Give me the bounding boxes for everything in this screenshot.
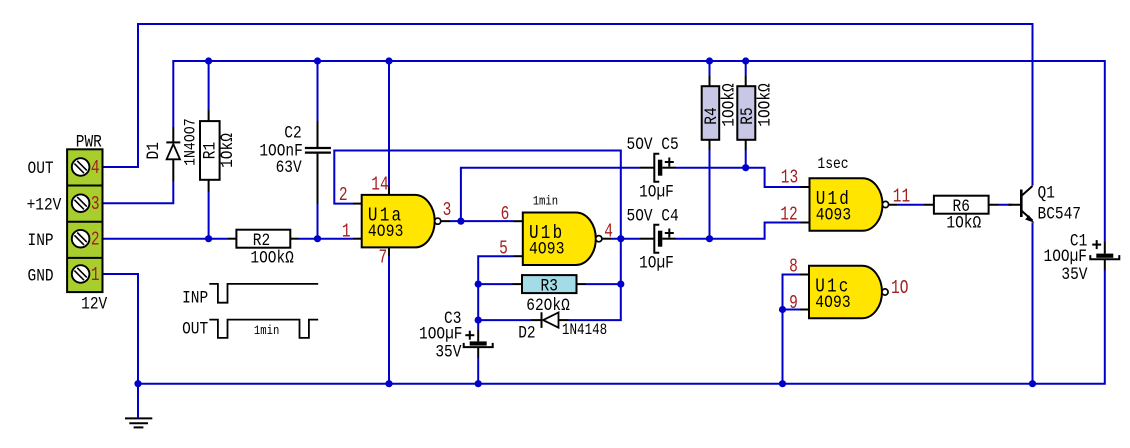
svg-text:2: 2: [91, 230, 100, 251]
svg-text:62OkΩ: 62OkΩ: [526, 296, 570, 316]
op-amp U1b nand gate: [514, 220, 523, 222]
junction: [205, 57, 212, 64]
svg-text:INP: INP: [182, 288, 208, 308]
svg-text:1OµF: 1OµF: [639, 253, 674, 273]
svg-text:1OkΩ: 1OkΩ: [946, 213, 981, 233]
junction: [617, 281, 624, 288]
svg-text:12V: 12V: [81, 294, 107, 314]
svg-text:6: 6: [501, 204, 510, 225]
transistor Q1: [1009, 204, 1022, 206]
junction: [385, 380, 392, 387]
junction: [314, 57, 321, 64]
terminal screw pin 2: [72, 230, 90, 248]
wire R4 bottom lead down across C5 row to C4 row: [709, 150, 711, 239]
svg-text:63V: 63V: [276, 158, 302, 178]
svg-text:7: 7: [378, 248, 387, 269]
junction: [475, 317, 482, 324]
capacitor C5: [640, 167, 654, 169]
svg-text:4: 4: [604, 222, 613, 243]
junction: [385, 57, 392, 64]
svg-text:1OOµF: 1OOµF: [419, 324, 462, 344]
capacitor C4: [640, 238, 654, 240]
capacitor C2: [317, 121, 319, 147]
svg-text:4O93: 4O93: [816, 204, 852, 225]
wire R3 left lead: [478, 283, 512, 285]
svg-text:1: 1: [91, 265, 100, 286]
wire U1b output pin4 to C4 left: [611, 238, 640, 240]
diode D2: [531, 319, 542, 321]
wire C4 right lead, jog up to U1d pin12: [676, 223, 801, 239]
wire feedback net pin2 - U1b output: horiz y150, down to pin4 junction: [334, 151, 621, 239]
svg-text:35V: 35V: [1061, 265, 1087, 285]
ground symbol: [137, 384, 139, 418]
junction: [706, 57, 713, 64]
svg-text:1OµF: 1OµF: [639, 182, 674, 202]
svg-text:D2: D2: [518, 323, 535, 343]
svg-text:4O93: 4O93: [368, 221, 404, 242]
wire C2 top lead from rail2: [317, 61, 319, 121]
svg-text:+12V: +12V: [27, 195, 62, 215]
svg-text:14: 14: [371, 175, 388, 196]
resistor R6: [924, 204, 934, 206]
svg-text:1O: 1O: [891, 278, 908, 299]
wire OUT net: pin4 stub, up left side, top rail, down to Q1 collector: [103, 24, 1033, 186]
svg-text:4: 4: [91, 158, 100, 179]
wire C2 bottom lead to node R2-pin1: [317, 204, 319, 239]
wire pin4 junction down to D2 row: [569, 239, 621, 320]
svg-text:9: 9: [789, 293, 798, 314]
wire +12V: pin3 stub to D1 bottom corner: [103, 181, 174, 203]
wire R5 top lead from rail2: [745, 61, 747, 76]
svg-text:1N4148: 1N4148: [562, 322, 607, 339]
junction: [617, 235, 624, 242]
svg-text:5: 5: [499, 239, 508, 260]
junction: [742, 57, 749, 64]
svg-text:BC547: BC547: [1038, 204, 1081, 224]
wire C3 bottom lead to ground rail: [477, 358, 479, 384]
terminal screw pin 1: [72, 265, 90, 283]
svg-text:OUT: OUT: [28, 159, 54, 179]
svg-text:1sec: 1sec: [817, 156, 848, 173]
svg-text:C2: C2: [284, 123, 301, 143]
svg-text:Q1: Q1: [1038, 183, 1055, 203]
svg-text:1min: 1min: [533, 194, 558, 209]
svg-text:13: 13: [781, 168, 798, 189]
wire U1c pin9 stub: [783, 309, 801, 311]
svg-text:1N4OO7: 1N4OO7: [182, 118, 199, 166]
capacitor C3: [477, 330, 479, 341]
wire pin14 power from rail2 down to U1a top: [388, 61, 390, 187]
svg-text:INP: INP: [28, 231, 54, 251]
waveform INP: [209, 284, 318, 303]
svg-text:1: 1: [342, 222, 351, 243]
op-amp U1a nand gate: [353, 203, 362, 205]
wire R5 bottom lead to C5 row: [745, 150, 747, 168]
wire pin7 from U1a bottom down to ground rail: [388, 256, 390, 384]
svg-text:4O93: 4O93: [815, 292, 851, 313]
svg-text:35V: 35V: [435, 342, 461, 362]
wire D2 left lead to C3 top node: [478, 319, 531, 321]
junction: [134, 380, 141, 387]
svg-text:PWR: PWR: [76, 132, 102, 152]
svg-text:D1: D1: [144, 142, 164, 159]
plus sign C1: [1092, 244, 1101, 246]
svg-text:3: 3: [443, 200, 452, 221]
svg-text:GND: GND: [28, 266, 54, 286]
svg-text:1min: 1min: [254, 323, 279, 338]
junction: [205, 235, 212, 242]
wire R1 top lead from rail2: [208, 61, 210, 110]
resistor R1: [208, 110, 210, 121]
waveform OUT: [209, 320, 318, 338]
svg-text:11: 11: [893, 187, 910, 208]
svg-text:1OOkΩ: 1OOkΩ: [719, 83, 739, 127]
wire R1 bottom lead to INP net: [208, 192, 210, 239]
capacitor C1: [1104, 242, 1106, 254]
wire R4 top lead from rail2: [709, 61, 711, 76]
wire U1d output pin11 to R6: [898, 204, 924, 206]
junction: [779, 380, 786, 387]
junction: [314, 235, 321, 242]
wire C5 right lead to R5 junction and jog to U1d pin13: [676, 168, 801, 187]
wire INP net: pin2 stub to R2 left: [103, 238, 229, 240]
svg-text:3: 3: [91, 194, 100, 215]
junction: [706, 235, 713, 242]
op-amp U1c nand gate: [800, 274, 809, 276]
wire R6 right to Q1 base: [999, 204, 1013, 206]
junction: [1029, 380, 1036, 387]
wire R3 right lead to vertical: [586, 283, 621, 285]
svg-text:1OkΩ: 1OkΩ: [218, 133, 238, 168]
svg-text:1OOkΩ: 1OOkΩ: [755, 83, 775, 127]
svg-text:12: 12: [780, 205, 797, 226]
wire R2 right to U1a pin1: [299, 238, 354, 240]
plus sign C3: [465, 334, 474, 336]
resistor R3: [513, 283, 523, 285]
svg-text:1OOkΩ: 1OOkΩ: [250, 248, 294, 268]
svg-text:8: 8: [789, 257, 798, 278]
svg-text:4O93: 4O93: [529, 238, 565, 259]
svg-text:5OV C4: 5OV C4: [627, 206, 679, 226]
svg-text:1OOµF: 1OOµF: [1044, 247, 1087, 267]
junction: [742, 164, 749, 171]
svg-text:OUT: OUT: [182, 319, 208, 339]
resistor R4: [709, 76, 711, 86]
diode D1: [172, 127, 174, 142]
junction: [475, 380, 482, 387]
svg-text:2: 2: [339, 186, 348, 207]
svg-text:5OV C5: 5OV C5: [627, 135, 679, 155]
wire U1a output pin3 to U1b pin6: [450, 220, 514, 222]
wire U1c pins 8,9 tie-down to ground rail: [783, 275, 801, 384]
junction: [475, 281, 482, 288]
wire GND: pin1 stub down to bottom rail, along bottom, up to C1 -: [103, 270, 1105, 384]
connector PWR block: [67, 149, 102, 292]
svg-text:R3: R3: [541, 276, 558, 296]
junction: [779, 306, 786, 313]
node pin3 riser to C5 row: [461, 168, 640, 221]
junction: [457, 218, 464, 225]
op-amp U1d nand gate: [801, 186, 810, 188]
wire VCC rail from D1 top along rail2, down to C1 +: [173, 61, 1105, 242]
resistor R5: [745, 76, 747, 86]
wire Q1 emitter down to ground rail: [1032, 223, 1034, 384]
resistor R2: [228, 238, 236, 240]
terminal screw pin 4: [72, 158, 90, 176]
wire U1b pin5 down the left loop to C3: [478, 256, 513, 330]
terminal screw pin 3: [72, 194, 90, 212]
